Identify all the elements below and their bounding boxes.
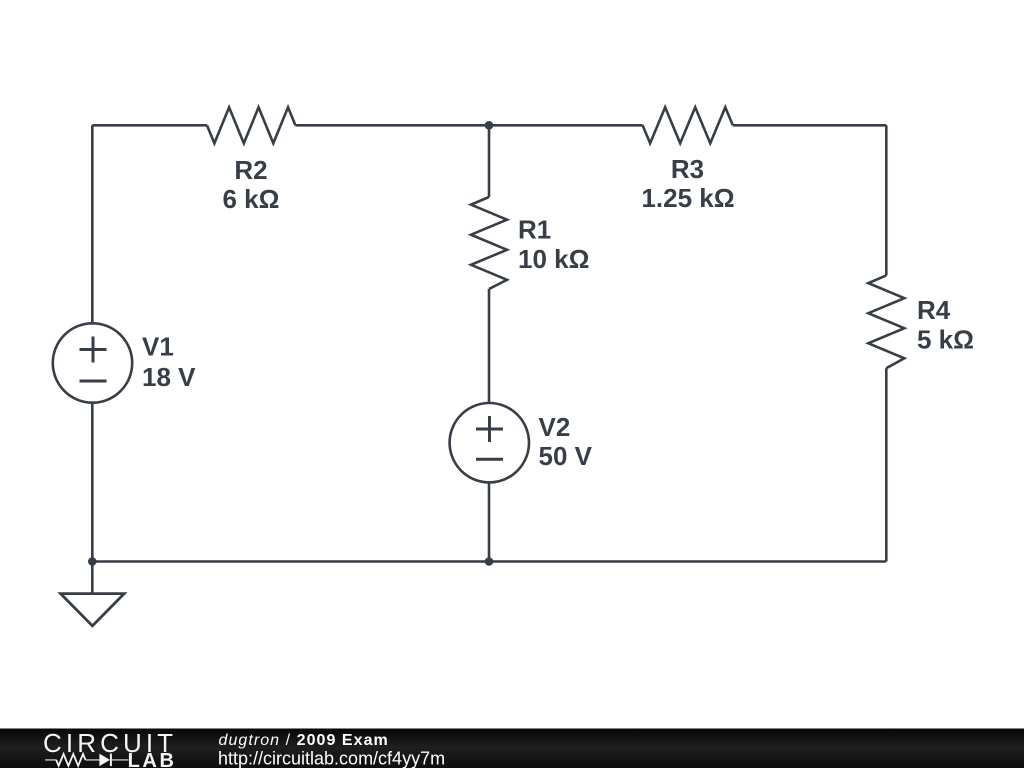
CircuitLab logo diode bar (110, 754, 112, 767)
svg-text:V1: V1 (142, 332, 174, 362)
V1 plus sign (80, 337, 107, 363)
V2 minus sign (476, 458, 503, 461)
svg-text:50 V: 50 V (539, 441, 593, 471)
wire left branch lower (91, 403, 94, 562)
voltage source V1 (53, 323, 132, 402)
svg-text:V2: V2 (539, 412, 571, 442)
wire top rail between R2 and R3 (295, 124, 642, 127)
wire right branch upper (885, 125, 888, 275)
svg-text:http://circuitlab.com/cf4yy7m: http://circuitlab.com/cf4yy7m (218, 749, 445, 768)
ground symbol (61, 594, 125, 626)
svg-text:10 kΩ: 10 kΩ (518, 244, 589, 274)
wire middle branch upper (488, 125, 491, 197)
node junction dot bottom left (88, 557, 97, 566)
svg-text:5 kΩ: 5 kΩ (917, 324, 974, 354)
CircuitLab logo diode triangle (99, 754, 110, 767)
svg-text:18 V: 18 V (142, 362, 196, 392)
resistor R1 (471, 197, 507, 289)
footer watermark bar (0, 729, 1024, 768)
svg-text:R2: R2 (234, 155, 267, 185)
wire below V2 (488, 482, 491, 561)
wire top-left lead into R2 (92, 124, 207, 127)
wire bottom rail (92, 560, 886, 563)
svg-text:R4: R4 (917, 295, 951, 325)
wire top-right lead from R3 (733, 124, 887, 127)
ground stem (91, 562, 94, 594)
CircuitLab logo lead wire middle (86, 759, 100, 761)
resistor R4 (868, 275, 904, 368)
V1 minus sign (80, 380, 107, 383)
svg-text:R1: R1 (518, 215, 551, 245)
svg-text:6 kΩ: 6 kΩ (223, 184, 280, 214)
node junction dot top middle (485, 121, 494, 130)
voltage source V2 (450, 403, 529, 482)
svg-text:1.25 kΩ: 1.25 kΩ (641, 183, 734, 213)
CircuitLab logo lead wire left (45, 759, 56, 761)
svg-text:dugtron / 2009 Exam: dugtron / 2009 Exam (219, 732, 389, 749)
node junction dot bottom middle (485, 557, 494, 566)
resistor R3 (643, 107, 733, 143)
resistor R2 (207, 107, 295, 143)
CircuitLab logo resistor squiggle (56, 754, 85, 766)
wire left branch upper (91, 125, 94, 323)
CircuitLab logo lead wire right (112, 759, 129, 761)
svg-text:LAB: LAB (128, 750, 177, 768)
wire between R1 and V2 (488, 289, 491, 403)
svg-text:R3: R3 (671, 154, 704, 184)
wire right branch lower (885, 368, 888, 561)
V2 plus sign (476, 416, 503, 442)
